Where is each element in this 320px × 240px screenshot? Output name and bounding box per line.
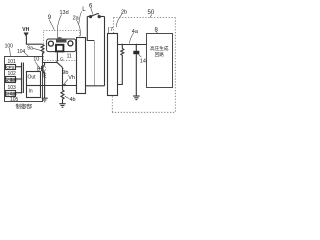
svg-text:In: In — [29, 89, 33, 95]
svg-text:計時部: 計時部 — [6, 91, 17, 96]
svg-text:10: 10 — [33, 56, 39, 62]
svg-text:4b: 4b — [70, 97, 76, 103]
svg-text:9a: 9a — [27, 45, 33, 51]
svg-text:103: 103 — [8, 85, 17, 91]
svg-text:101: 101 — [8, 59, 17, 65]
svg-text:14: 14 — [140, 59, 146, 65]
svg-text:104: 104 — [17, 49, 26, 55]
svg-text:回路: 回路 — [155, 51, 165, 58]
svg-text:Vh: Vh — [68, 75, 75, 81]
svg-text:100: 100 — [5, 44, 14, 50]
svg-text:高圧生成: 高圧生成 — [150, 45, 169, 52]
svg-text:4a: 4a — [132, 29, 139, 35]
svg-text:G: G — [60, 56, 64, 61]
svg-text:CPU: CPU — [6, 66, 14, 70]
svg-text:50: 50 — [148, 10, 155, 16]
svg-text:記憶部: 記憶部 — [6, 77, 17, 82]
svg-text:C: C — [43, 67, 47, 73]
svg-text:2b: 2b — [121, 10, 127, 16]
svg-text:2a: 2a — [73, 15, 80, 21]
svg-text:7: 7 — [110, 27, 113, 33]
svg-text:105: 105 — [10, 97, 19, 103]
svg-text:13d: 13d — [60, 10, 69, 16]
svg-text:制御部: 制御部 — [16, 103, 33, 111]
svg-text:102: 102 — [8, 71, 17, 77]
svg-text:Out: Out — [28, 75, 37, 81]
svg-text:11: 11 — [67, 54, 72, 60]
svg-text:VH: VH — [22, 27, 29, 33]
